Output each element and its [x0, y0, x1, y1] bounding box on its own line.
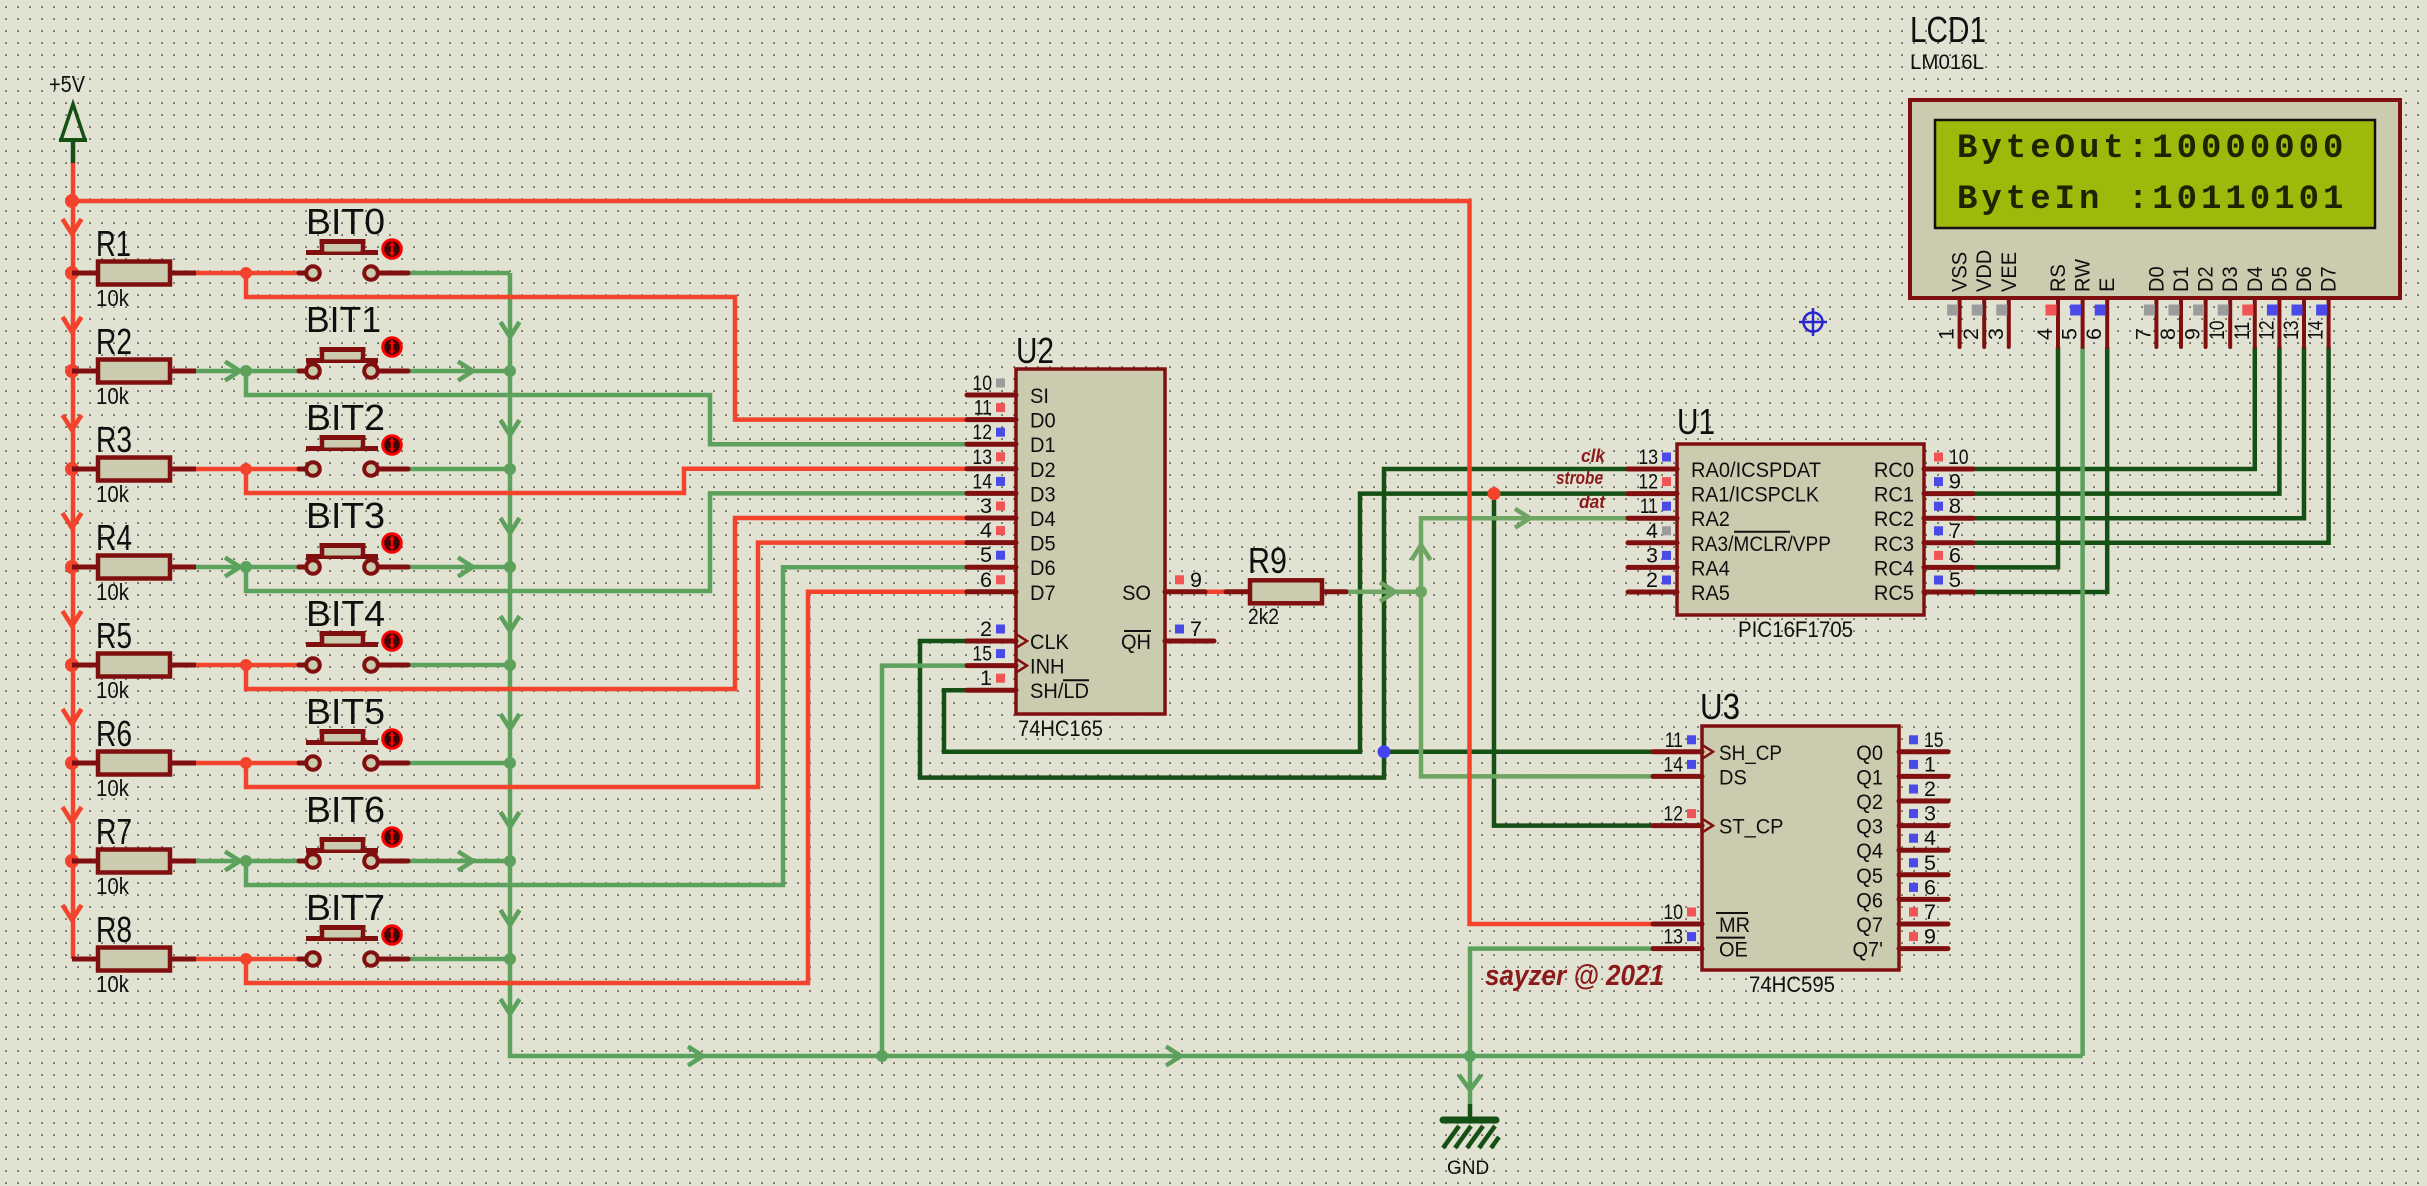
svg-text:Q7': Q7' [1853, 938, 1884, 962]
svg-text:RS: RS [2046, 264, 2070, 292]
svg-text:3: 3 [1984, 328, 2008, 340]
svg-text:LCD1: LCD1 [1910, 9, 1986, 50]
svg-text:RA1/ICSPCLK: RA1/ICSPCLK [1691, 483, 1820, 507]
svg-text:13: 13 [1663, 925, 1683, 949]
svg-text:RA2: RA2 [1691, 507, 1730, 531]
svg-text:10k: 10k [96, 481, 129, 507]
svg-text:14: 14 [972, 469, 992, 493]
svg-text:10: 10 [1663, 900, 1683, 924]
svg-text:9: 9 [1949, 470, 1961, 494]
svg-text:LM016L: LM016L [1910, 51, 1984, 74]
svg-text:8: 8 [2156, 328, 2180, 340]
svg-text:15: 15 [972, 642, 992, 666]
svg-text:6: 6 [1949, 543, 1961, 567]
svg-text:8: 8 [1949, 494, 1961, 518]
svg-text:1: 1 [980, 666, 992, 690]
svg-text:BIT6: BIT6 [306, 789, 385, 830]
svg-text:+5V: +5V [49, 71, 86, 97]
svg-text:SH/LD: SH/LD [1030, 679, 1089, 703]
svg-text:RA0/ICSPDAT: RA0/ICSPDAT [1691, 458, 1821, 482]
svg-text:RA5: RA5 [1691, 581, 1730, 605]
svg-text:14: 14 [1663, 752, 1683, 776]
svg-text:7: 7 [1924, 900, 1936, 924]
svg-text:12: 12 [972, 420, 992, 444]
svg-text:9: 9 [1190, 568, 1202, 592]
svg-text:R2: R2 [96, 321, 132, 362]
svg-text:Q2: Q2 [1856, 790, 1883, 814]
svg-text:ByteOut:10000000: ByteOut:10000000 [1957, 130, 2347, 168]
svg-text:10: 10 [1949, 445, 1969, 469]
svg-text:13: 13 [2279, 320, 2303, 340]
svg-text:R9: R9 [1248, 540, 1287, 581]
svg-text:5: 5 [1949, 568, 1961, 592]
svg-text:10k: 10k [96, 579, 129, 605]
svg-text:U1: U1 [1677, 401, 1715, 442]
svg-text:BIT7: BIT7 [306, 887, 385, 928]
svg-text:GND: GND [1447, 1158, 1489, 1179]
svg-text:BIT0: BIT0 [306, 201, 385, 242]
svg-text:4: 4 [1646, 519, 1658, 543]
svg-text:D6: D6 [2292, 266, 2316, 292]
svg-text:7: 7 [1949, 519, 1961, 543]
svg-text:7: 7 [2131, 328, 2155, 340]
svg-text:ST_CP: ST_CP [1719, 815, 1784, 839]
svg-text:E: E [2095, 278, 2119, 292]
svg-text:D3: D3 [2218, 266, 2242, 292]
svg-text:10k: 10k [96, 285, 129, 311]
svg-text:Q3: Q3 [1856, 815, 1883, 839]
svg-text:RC5: RC5 [1874, 581, 1914, 605]
svg-text:R8: R8 [96, 909, 132, 950]
svg-text:4: 4 [2033, 328, 2057, 340]
svg-text:D5: D5 [2267, 266, 2291, 292]
svg-text:RC3: RC3 [1874, 532, 1914, 556]
svg-text:D2: D2 [1030, 458, 1056, 482]
svg-text:RC1: RC1 [1874, 483, 1914, 507]
svg-text:D7: D7 [1030, 581, 1056, 605]
svg-text:RC4: RC4 [1874, 556, 1914, 580]
svg-text:D0: D0 [2144, 266, 2168, 292]
svg-text:SH_CP: SH_CP [1719, 741, 1782, 765]
svg-text:RA4: RA4 [1691, 556, 1730, 580]
svg-text:9: 9 [2181, 328, 2205, 340]
svg-text:5: 5 [2058, 328, 2082, 340]
svg-text:D4: D4 [2243, 266, 2267, 292]
svg-text:U2: U2 [1016, 330, 1054, 371]
svg-text:1: 1 [1935, 328, 1959, 340]
svg-text:1: 1 [1924, 752, 1936, 776]
svg-text:ByteIn :10110101: ByteIn :10110101 [1957, 181, 2347, 219]
svg-text:11: 11 [974, 396, 992, 420]
svg-text:74HC595: 74HC595 [1749, 972, 1835, 997]
svg-text:R1: R1 [96, 223, 131, 264]
svg-text:D6: D6 [1030, 556, 1056, 580]
svg-text:D1: D1 [2169, 266, 2193, 292]
svg-text:5: 5 [980, 543, 992, 567]
svg-text:CLK: CLK [1030, 630, 1070, 654]
svg-text:7: 7 [1190, 617, 1202, 641]
svg-text:D5: D5 [1030, 532, 1056, 556]
svg-text:Q0: Q0 [1856, 741, 1883, 765]
svg-text:4: 4 [980, 519, 992, 543]
svg-text:2: 2 [980, 617, 992, 641]
svg-text:RC2: RC2 [1874, 507, 1914, 531]
svg-text:RW: RW [2071, 258, 2095, 292]
svg-text:10: 10 [2205, 320, 2229, 340]
svg-text:D7: D7 [2317, 266, 2341, 292]
svg-text:QH: QH [1121, 630, 1151, 654]
svg-text:SO: SO [1122, 581, 1151, 605]
svg-text:VSS: VSS [1948, 252, 1972, 292]
svg-text:6: 6 [2082, 328, 2106, 340]
svg-text:3: 3 [1646, 543, 1658, 567]
svg-text:BIT4: BIT4 [306, 593, 385, 634]
svg-text:11: 11 [1640, 494, 1658, 518]
svg-text:12: 12 [2254, 320, 2278, 340]
svg-text:10k: 10k [96, 971, 129, 997]
svg-text:13: 13 [1638, 445, 1658, 469]
svg-text:Q4: Q4 [1856, 839, 1883, 863]
svg-text:D1: D1 [1030, 433, 1056, 457]
svg-text:10k: 10k [96, 383, 129, 409]
svg-text:Q1: Q1 [1856, 765, 1883, 789]
svg-text:9: 9 [1924, 925, 1936, 949]
svg-text:BIT5: BIT5 [306, 691, 385, 732]
svg-text:clk: clk [1581, 446, 1606, 466]
svg-text:VDD: VDD [1972, 250, 1996, 292]
svg-text:2: 2 [1924, 777, 1936, 801]
svg-text:2k2: 2k2 [1248, 604, 1279, 629]
svg-text:RA3/MCLR/VPP: RA3/MCLR/VPP [1691, 532, 1831, 556]
svg-text:OE: OE [1719, 938, 1748, 962]
svg-text:Q6: Q6 [1856, 888, 1883, 912]
svg-text:VEE: VEE [1997, 252, 2021, 292]
svg-text:strobe: strobe [1556, 468, 1603, 488]
svg-text:14: 14 [2304, 320, 2328, 340]
svg-text:INH: INH [1030, 655, 1065, 679]
svg-text:12: 12 [1663, 802, 1683, 826]
svg-text:D2: D2 [2194, 266, 2218, 292]
svg-text:4: 4 [1924, 826, 1936, 850]
svg-text:BIT1: BIT1 [306, 299, 381, 340]
svg-text:BIT3: BIT3 [306, 495, 385, 536]
svg-text:15: 15 [1924, 728, 1944, 752]
svg-text:MR: MR [1719, 913, 1750, 937]
svg-text:3: 3 [1924, 802, 1936, 826]
svg-text:10: 10 [972, 371, 992, 395]
svg-text:D4: D4 [1030, 507, 1056, 531]
svg-text:D3: D3 [1030, 482, 1056, 506]
svg-text:Q7: Q7 [1856, 913, 1883, 937]
svg-text:Q5: Q5 [1856, 864, 1883, 888]
svg-text:DS: DS [1719, 765, 1747, 789]
svg-text:R3: R3 [96, 419, 132, 460]
svg-text:PIC16F1705: PIC16F1705 [1738, 617, 1853, 642]
svg-text:R4: R4 [96, 517, 132, 558]
svg-text:13: 13 [972, 445, 992, 469]
svg-text:3: 3 [980, 494, 992, 518]
svg-text:BIT2: BIT2 [306, 397, 385, 438]
svg-text:12: 12 [1638, 470, 1658, 494]
svg-text:10k: 10k [96, 873, 129, 899]
svg-text:10k: 10k [96, 677, 129, 703]
svg-text:R6: R6 [96, 713, 132, 754]
svg-text:10k: 10k [96, 775, 129, 801]
svg-text:2: 2 [1959, 328, 1983, 340]
svg-text:6: 6 [980, 568, 992, 592]
svg-text:D0: D0 [1030, 409, 1056, 433]
svg-text:U3: U3 [1700, 686, 1740, 727]
svg-text:R5: R5 [96, 615, 132, 656]
svg-text:5: 5 [1924, 851, 1936, 875]
svg-text:RC0: RC0 [1874, 458, 1914, 482]
svg-text:6: 6 [1924, 875, 1936, 899]
svg-text:2: 2 [1646, 568, 1658, 592]
svg-text:R7: R7 [96, 811, 132, 852]
svg-text:SI: SI [1030, 384, 1049, 408]
svg-text:11: 11 [1665, 728, 1683, 752]
svg-text:sayzer @ 2021: sayzer @ 2021 [1485, 960, 1664, 992]
svg-text:74HC165: 74HC165 [1018, 716, 1103, 741]
svg-text:11: 11 [2230, 322, 2254, 340]
svg-text:dat: dat [1579, 492, 1606, 512]
